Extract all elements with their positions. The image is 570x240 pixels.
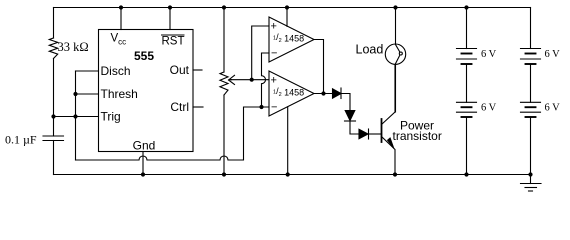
wire U2a output to junction [314,40,324,94]
svg-text:Out: Out [170,63,190,77]
svg-text:0.1 µF: 0.1 µF [5,133,37,147]
wire Ctrl stub [193,106,203,108]
wire D1 to D2 [341,94,350,111]
transistor Q1 collector [382,65,396,125]
svg-text:Gnd: Gnd [133,139,156,153]
svg-text:33 kΩ: 33 kΩ [58,40,89,54]
node pot bottom junction [222,172,226,176]
transistor Q1 emitter [382,137,396,175]
diode D2 [345,111,355,121]
555 timer U1 box [99,30,194,152]
wire Out stub [193,69,202,71]
potentiometer wiper arrow [229,75,235,84]
label RST overbar [161,34,185,36]
svg-text:Load: Load [356,43,384,57]
svg-text:+: + [271,21,277,33]
node emitter bottom junction [393,172,397,176]
transistor Q1 base bar [381,119,383,142]
wire Thresh stub [76,93,99,95]
node Trig junction [73,114,77,118]
svg-text:−: − [271,48,277,60]
node Vcc rail junction [119,5,123,9]
wire top rail [54,7,531,9]
svg-text:Trig: Trig [101,110,121,124]
node Thresh junction [73,92,77,96]
svg-text:6 V: 6 V [481,103,497,114]
wire bottom rail [54,174,531,176]
node ground junction [528,172,532,176]
wire Vcc pin [120,8,122,30]
svg-text:1/2 1458: 1/2 1458 [273,86,304,98]
op-amp U2a V+ power [286,8,288,27]
node pot top junction [222,5,226,9]
battery B4 bottom lead [530,117,532,175]
svg-text:555: 555 [134,49,154,63]
wire wiper to op-amps [231,79,269,81]
node op-amp V+ junction [285,5,289,9]
wire between B3 and B4 [530,64,532,102]
load lamp L1 [395,8,397,45]
battery B1 lead [466,8,468,49]
node wiper junction [250,78,254,82]
ground [530,175,532,184]
svg-text:+: + [271,75,277,87]
op-amp U2a 1/2 1458 [269,17,314,62]
resistor R1 33 kOhm [49,38,57,59]
node Gnd bottom junction [141,172,145,176]
op-amp U2b 1/2 1458 [269,71,314,116]
svg-text:RST: RST [162,35,185,47]
wire left rail upper [53,8,55,39]
battery B3 6V [521,48,541,50]
potentiometer R2 bottom lead [223,95,225,175]
svg-text:Disch: Disch [101,64,131,78]
capacitor C1 0.1 uF [43,135,64,137]
battery B2 6V [457,101,477,103]
wire Trig line [54,116,99,118]
wire RST pin [169,8,171,30]
wire Disch-Thresh-Trig vertical [75,71,77,160]
node op-amp outputs junction [321,91,325,95]
battery B1 6V [457,48,477,50]
svg-text:Thresh: Thresh [101,87,138,101]
wire left rail middle [53,59,55,137]
wire triangle-wave run y160 [76,107,270,160]
node battery B2 bottom junction [464,172,468,176]
potentiometer R2 zigzag [220,72,228,95]
wire left rail lower [53,141,55,175]
node Trig-cap junction [51,114,55,118]
wire D2 to D3 [350,121,359,134]
node op-amp V- bottom junction [286,172,290,176]
diode D3 [359,129,368,138]
battery B3 lead [530,8,532,49]
svg-text:1/2 1458: 1/2 1458 [273,32,304,44]
battery B2 bottom lead [466,117,468,175]
svg-text:−: − [271,102,277,114]
node load top junction [393,5,397,9]
svg-text:6 V: 6 V [481,49,497,60]
node RST rail junction [168,5,172,9]
diode D1 [333,89,342,98]
potentiometer R2 top lead [223,8,225,73]
node battery B1 top junction [464,5,468,9]
op-amp U2b V- power [287,107,289,175]
wire U2a minus input down with hop [262,53,270,107]
wire D3 to base [369,133,382,135]
svg-text:6 V: 6 V [545,103,561,114]
svg-text:Ctrl: Ctrl [170,100,189,114]
svg-text:6 V: 6 V [545,49,561,60]
wire U2b output [314,93,333,95]
wire Gnd pin [142,152,144,175]
battery B4 6V [521,101,541,103]
svg-text:transistor: transistor [393,129,442,143]
wire wiper up to U2a plus input [252,26,269,80]
node minus-input junction [259,105,263,109]
transistor Q1 emitter arrow [387,138,394,149]
wire Disch stub [76,70,99,72]
wire between B1 and B2 [466,64,468,102]
